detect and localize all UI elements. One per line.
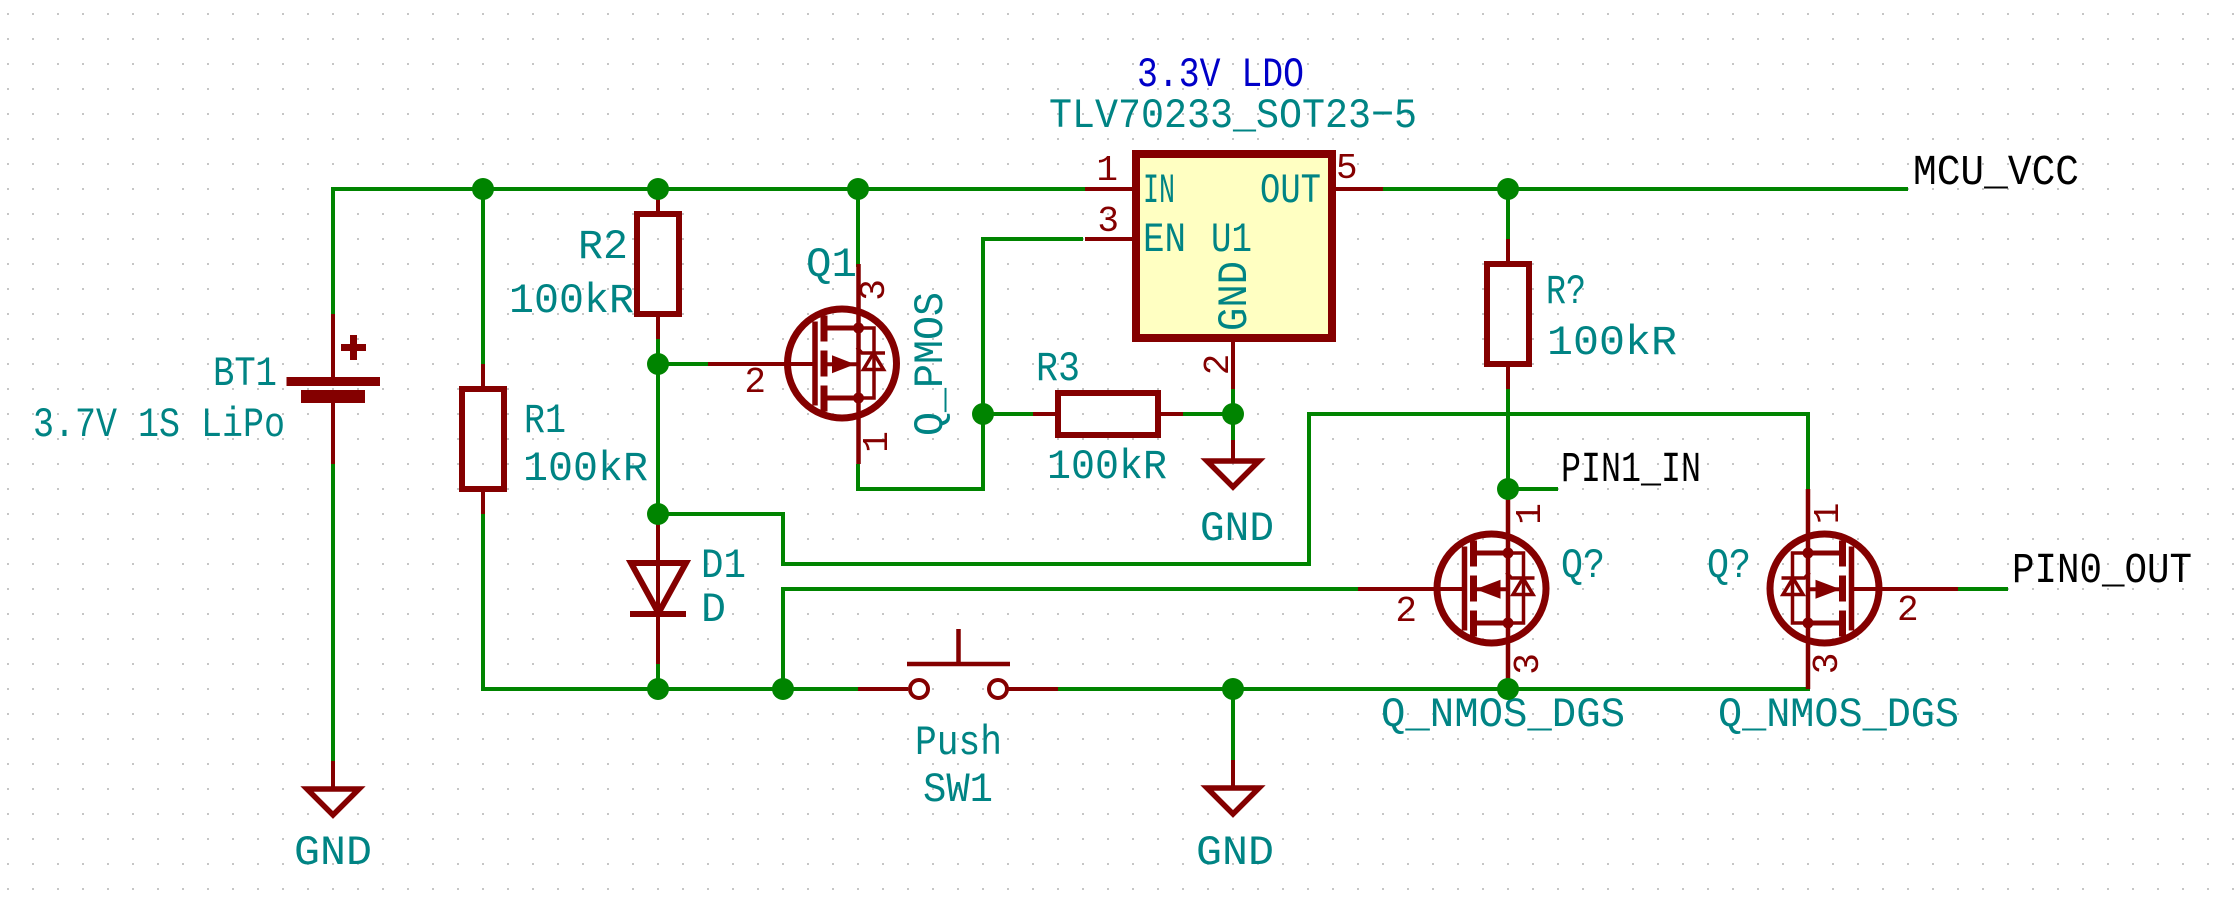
wire bottom rail left	[481, 687, 858, 691]
junction E	[647, 353, 669, 375]
wire EN net vertical	[983, 239, 1083, 416]
svg-text:PIN1_IN: PIN1_IN	[1561, 445, 1701, 494]
transistor Q? Q_NMOS_DGS left	[1437, 489, 1546, 689]
wire junction to R3	[983, 412, 1033, 416]
wire GND junction stub	[1231, 414, 1235, 440]
svg-text:2: 2	[1395, 591, 1417, 632]
svg-text:TLV70233_SOT23−5: TLV70233_SOT23−5	[1049, 92, 1417, 140]
resistor R2	[656, 189, 660, 214]
svg-text:2: 2	[744, 362, 766, 403]
junction A	[472, 178, 494, 200]
wire gate riser	[781, 587, 785, 689]
wire D1 to NMOS gates part1	[658, 414, 1808, 564]
svg-text:3: 3	[1508, 653, 1549, 675]
power symbol GND (middle)	[1231, 760, 1235, 788]
junction G	[1222, 403, 1244, 425]
svg-text:1: 1	[1510, 503, 1551, 525]
wire U1 GND pin to junction	[1231, 389, 1235, 414]
wire left NMOS gate	[783, 587, 1358, 591]
wire Q1 source loop	[858, 414, 983, 489]
junction C	[847, 178, 869, 200]
svg-text:R2: R2	[578, 223, 628, 271]
IC U1 body	[1136, 154, 1332, 338]
wire Q1 drain pin top	[856, 189, 860, 267]
resistor R3	[1033, 412, 1058, 416]
svg-text:Q?: Q?	[1707, 542, 1751, 590]
svg-text:D1: D1	[701, 542, 746, 590]
left NMOS gate pin	[1358, 587, 1465, 591]
svg-text:EN: EN	[1143, 216, 1186, 264]
transistor Q1 Q_PMOS	[788, 264, 897, 464]
U1 pin 2 GND	[1231, 338, 1235, 389]
wire D1 bottom	[656, 664, 660, 689]
wire Q1 gate	[658, 362, 708, 366]
wire R2 bottom to D1	[656, 339, 660, 563]
svg-text:100kR: 100kR	[509, 277, 634, 325]
svg-text:GND: GND	[1211, 261, 1259, 331]
wire PIN1_IN stub	[1508, 487, 1558, 491]
switch SW1	[858, 687, 908, 691]
svg-text:Q?: Q?	[1561, 542, 1605, 590]
svg-text:3: 3	[1807, 653, 1848, 675]
wire VCC rail right (U1 OUT to MCU_VCC)	[1383, 187, 1908, 191]
wire bottom rail right	[1058, 687, 1810, 691]
diode D1	[656, 514, 660, 664]
svg-text:U1: U1	[1211, 216, 1252, 264]
svg-text:GND: GND	[1200, 505, 1274, 553]
right NMOS gate pin	[1851, 587, 1958, 591]
wire battery top	[331, 187, 335, 314]
svg-text:2: 2	[1897, 590, 1919, 631]
svg-text:100kR: 100kR	[1047, 443, 1167, 491]
battery BT1	[331, 314, 335, 377]
svg-text:Q1: Q1	[806, 241, 857, 289]
svg-text:1: 1	[857, 431, 898, 453]
svg-text:100kR: 100kR	[1547, 319, 1677, 367]
junction I	[647, 678, 669, 700]
svg-text:IN: IN	[1143, 167, 1175, 215]
wire mid GND drop	[1231, 689, 1235, 760]
junction K	[1222, 678, 1244, 700]
junction F	[972, 403, 994, 425]
svg-text:5: 5	[1336, 148, 1358, 189]
svg-text:Q_PMOS: Q_PMOS	[907, 292, 955, 436]
svg-text:BT1: BT1	[213, 350, 277, 398]
transistor Q? Q_NMOS_DGS right	[1770, 489, 1879, 689]
Q1 gate pin	[708, 362, 815, 366]
wire R? top	[1506, 189, 1510, 239]
junction J	[772, 678, 794, 700]
svg-text:MCU_VCC: MCU_VCC	[1913, 148, 2079, 197]
svg-text:1: 1	[1808, 503, 1849, 525]
junction H	[647, 503, 669, 525]
resistor R?	[1506, 239, 1510, 264]
U1 pin 1 IN	[1085, 187, 1136, 191]
svg-text:3: 3	[854, 279, 895, 301]
power symbol GND (battery)	[331, 761, 335, 789]
power symbol GND (U1)	[1231, 440, 1235, 461]
svg-text:3: 3	[1097, 201, 1119, 242]
junction B	[647, 178, 669, 200]
svg-text:OUT: OUT	[1260, 167, 1321, 215]
U1 pin 3 EN	[1085, 237, 1136, 241]
wire right NMOS gate stub	[1958, 587, 2008, 591]
resistor R1	[481, 364, 485, 389]
wire R3 to GND junction	[1183, 412, 1233, 416]
wire R1 top	[481, 189, 485, 364]
svg-text:3.7V 1S LiPo: 3.7V 1S LiPo	[33, 401, 285, 449]
U1 pin 5 OUT	[1332, 187, 1383, 191]
svg-text:GND: GND	[294, 829, 372, 877]
svg-text:D: D	[701, 586, 726, 634]
svg-text:1: 1	[1096, 150, 1118, 191]
wire R? bottom to PIN1_IN junction	[1506, 389, 1510, 489]
svg-text:PIN0_OUT: PIN0_OUT	[2012, 546, 2192, 595]
wire battery bottom to GND	[331, 464, 335, 761]
junction D	[1497, 178, 1519, 200]
svg-text:Q_NMOS_DGS: Q_NMOS_DGS	[1718, 691, 1959, 739]
svg-text:Push: Push	[915, 719, 1002, 767]
svg-text:100kR: 100kR	[523, 445, 648, 493]
svg-text:R?: R?	[1546, 268, 1586, 316]
svg-text:R3: R3	[1036, 345, 1080, 393]
svg-text:GND: GND	[1196, 829, 1274, 877]
svg-text:2: 2	[1198, 354, 1239, 376]
svg-text:R1: R1	[524, 397, 566, 445]
wire R1 bottom	[481, 514, 485, 691]
svg-text:SW1: SW1	[923, 766, 993, 814]
wire VCC rail left (battery to U1 IN pin)	[331, 187, 1085, 191]
junction L	[1497, 678, 1519, 700]
junction M	[1497, 478, 1519, 500]
